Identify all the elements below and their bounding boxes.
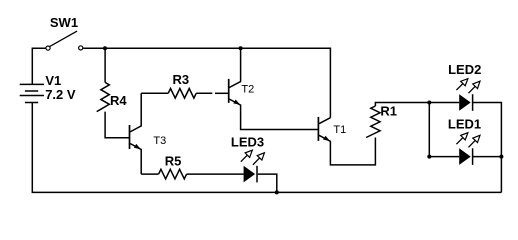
svg-text:T1: T1 bbox=[333, 124, 346, 136]
svg-text:R3: R3 bbox=[173, 72, 190, 87]
svg-text:V1: V1 bbox=[45, 73, 61, 88]
svg-text:R1: R1 bbox=[380, 103, 397, 118]
svg-text:T2: T2 bbox=[241, 84, 254, 96]
svg-text:T3: T3 bbox=[153, 135, 166, 147]
svg-text:SW1: SW1 bbox=[50, 15, 78, 30]
svg-text:LED2: LED2 bbox=[448, 62, 481, 77]
svg-text:R5: R5 bbox=[165, 154, 182, 169]
svg-text:LED1: LED1 bbox=[448, 117, 481, 132]
svg-text:R4: R4 bbox=[110, 93, 127, 108]
svg-text:7.2 V: 7.2 V bbox=[45, 87, 76, 102]
svg-text:LED3: LED3 bbox=[231, 134, 264, 149]
